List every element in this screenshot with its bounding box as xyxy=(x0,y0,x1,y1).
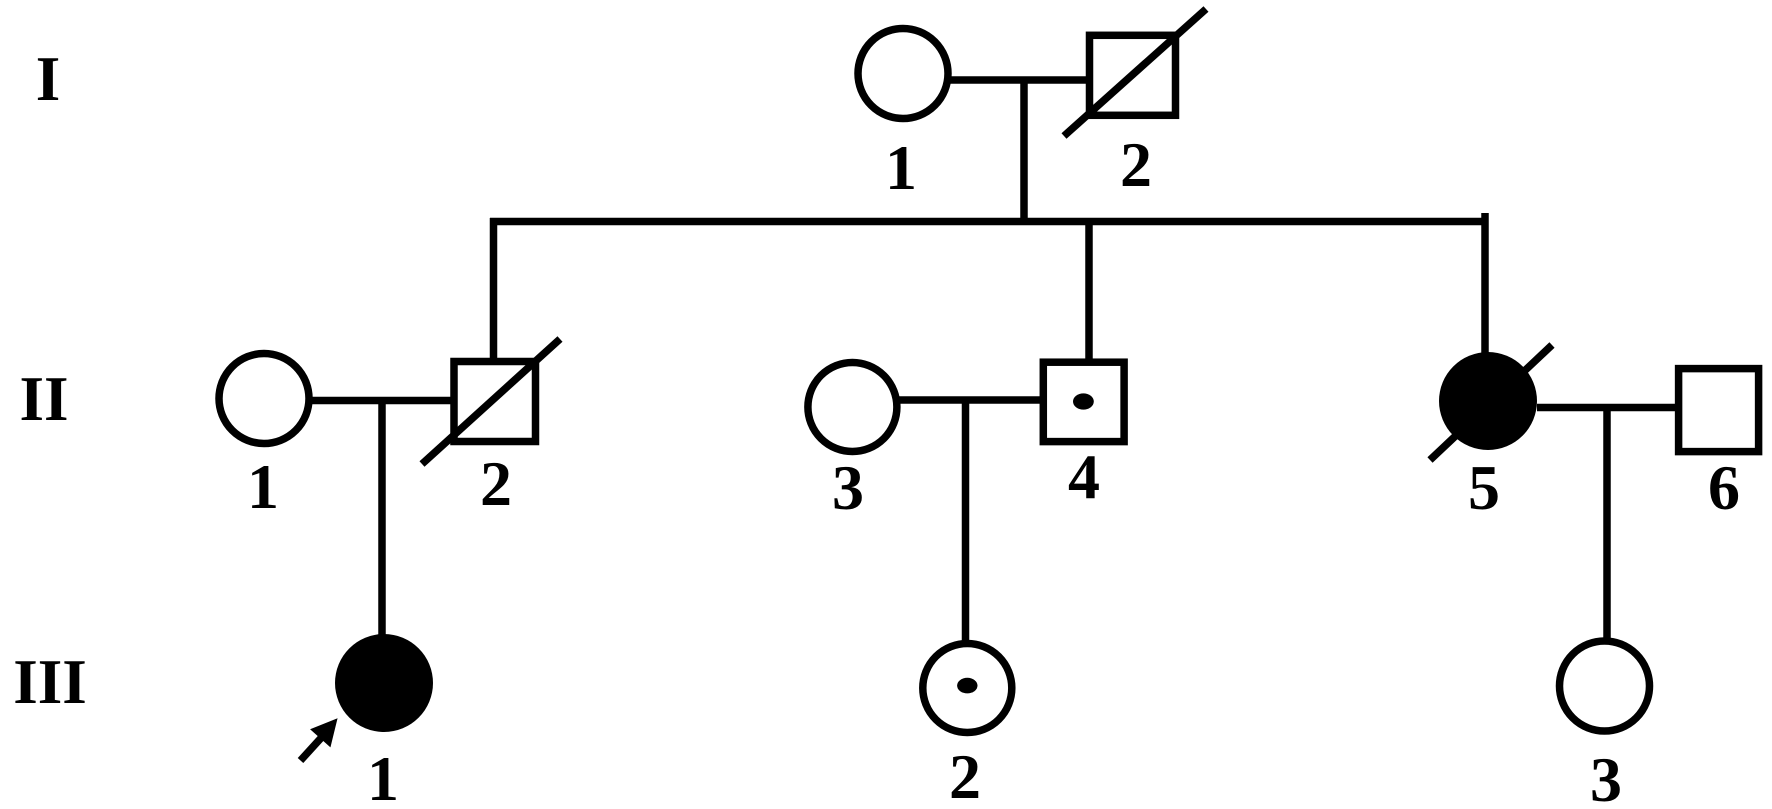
wire: couple line II-5 to II-6 xyxy=(1537,404,1679,412)
wire: couple line II-1 to II-2 xyxy=(309,397,453,405)
individual III-3: unaffected female circle xyxy=(1560,641,1650,731)
label 2 under I-2 xyxy=(1120,129,1152,200)
label 3 under II-3 xyxy=(832,452,864,523)
deceased slash over II-2 xyxy=(422,339,560,464)
individual II-1: unaffected female circle xyxy=(219,354,309,444)
svg-text:2: 2 xyxy=(1120,129,1152,200)
label 3 under III-3 xyxy=(1590,744,1622,809)
deceased slash over II-5 xyxy=(1430,345,1552,460)
generation label III xyxy=(13,647,87,717)
wire: couple line I-1 to I-2 xyxy=(947,76,1089,84)
generation label I xyxy=(36,44,61,114)
svg-text:3: 3 xyxy=(1590,744,1622,809)
individual I-2: deceased male square xyxy=(1090,35,1176,115)
deceased slash over I-2 xyxy=(1064,9,1206,136)
wire: descent from couple II-3/II-4 to III-2 xyxy=(962,400,970,644)
individual I-1: unaffected female circle xyxy=(858,29,948,119)
individual II-5: affected deceased female filled circle xyxy=(1439,352,1537,450)
label 5 under II-5 xyxy=(1468,452,1500,523)
svg-text:1: 1 xyxy=(885,132,917,203)
wire: descent from couple II-1/II-2 to III-1 xyxy=(378,400,386,640)
wire: sibship line of generation II xyxy=(490,218,1485,226)
individual III-2: carrier female circle with dot xyxy=(923,644,1012,733)
svg-text:1: 1 xyxy=(247,451,279,522)
svg-text:6: 6 xyxy=(1708,452,1740,523)
label 1 under I-1 xyxy=(885,132,917,203)
svg-text:5: 5 xyxy=(1468,452,1500,523)
svg-text:2: 2 xyxy=(949,741,981,809)
wire: drop from sibship to II-4 xyxy=(1085,218,1093,362)
individual II-3: unaffected female circle xyxy=(808,363,897,452)
wire: drop from sibship to II-2 xyxy=(490,218,498,361)
svg-text:I: I xyxy=(36,44,61,114)
label 2 under III-2 xyxy=(949,741,981,809)
svg-text:II: II xyxy=(19,364,68,434)
label 6 under II-6 xyxy=(1708,452,1740,523)
svg-text:III: III xyxy=(13,647,87,717)
label 1 under II-1 xyxy=(247,451,279,522)
svg-text:3: 3 xyxy=(832,452,864,523)
individual II-4: carrier male square with dot xyxy=(1043,362,1124,441)
individual II-6: unaffected male square xyxy=(1679,369,1759,452)
svg-text:4: 4 xyxy=(1068,441,1100,512)
label 2 under II-2 xyxy=(480,448,512,519)
individual II-2: deceased male square xyxy=(454,362,536,442)
proband arrow pointing to III-1 xyxy=(301,720,337,761)
individual III-1: affected female filled circle (proband) xyxy=(335,634,433,732)
generation label II xyxy=(19,364,68,434)
wire: drop from sibship to II-5 xyxy=(1481,213,1489,356)
svg-text:2: 2 xyxy=(480,448,512,519)
wire: couple line II-3 to II-4 xyxy=(897,396,1043,404)
wire: descent from couple II-5/II-6 to III-3 xyxy=(1603,407,1611,641)
wire: descent from couple I to sibship line xyxy=(1020,80,1028,222)
label 1 under III-1 xyxy=(367,743,399,809)
label 4 under II-4 xyxy=(1068,441,1100,512)
svg-text:1: 1 xyxy=(367,743,399,809)
